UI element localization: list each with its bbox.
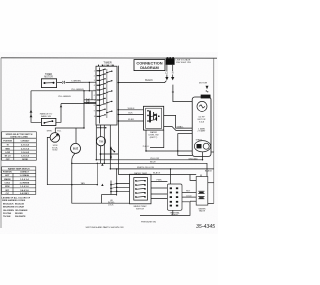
border top bbox=[1, 57, 217, 59]
pump loop wiring bbox=[178, 132, 192, 134]
timer internal buses bbox=[99, 68, 101, 124]
svg-text:8: 8 bbox=[94, 105, 95, 107]
motor box bbox=[192, 97, 211, 156]
svg-text:10: 10 bbox=[94, 116, 96, 118]
svg-text:RD-RED: RD-RED bbox=[15, 213, 23, 215]
svg-text:1-2 & 5-6: 1-2 & 5-6 bbox=[20, 186, 29, 188]
timer motor box bbox=[41, 79, 56, 88]
wires WT box to pin box bbox=[151, 181, 167, 183]
svg-text:3-4 & 5-6: 3-4 & 5-6 bbox=[20, 189, 29, 192]
svg-text:P-BLU: P-BLU bbox=[143, 146, 149, 148]
wire N down to motor bbox=[173, 85, 192, 102]
svg-text:2-3 & 4-5: 2-3 & 4-5 bbox=[21, 144, 30, 147]
wire below pin box bbox=[140, 202, 190, 216]
svg-text:6: 6 bbox=[94, 95, 95, 97]
svg-text:BK-BLACK: BK-BLACK bbox=[3, 202, 14, 205]
svg-text:LOW: LOW bbox=[5, 152, 10, 154]
terminal block TB1 bbox=[166, 57, 175, 65]
svg-text:BLACK: BLACK bbox=[153, 172, 161, 175]
valve right wires bbox=[208, 182, 214, 184]
svg-text:CONTACTS CLOSED: CONTACTS CLOSED bbox=[10, 136, 29, 139]
small timer circle mid bbox=[96, 137, 105, 146]
buzzer circle bbox=[71, 143, 81, 153]
svg-text:1-2 WASH: 1-2 WASH bbox=[20, 174, 30, 177]
table 2: water temp switch bbox=[2, 167, 36, 195]
border left bbox=[0, 58, 2, 228]
svg-text:SWITCHES AND PARTS SHOWN OFF: SWITCHES AND PARTS SHOWN OFF bbox=[86, 226, 125, 229]
svg-text:BLACK: BLACK bbox=[205, 170, 213, 173]
svg-text:1-2 & 4-5: 1-2 & 4-5 bbox=[21, 151, 30, 154]
svg-text:POSITION: POSITION bbox=[3, 141, 12, 143]
wire left drop to unbalance switch bbox=[31, 91, 41, 123]
svg-text:CONTACT: CONTACT bbox=[21, 140, 31, 143]
svg-text:SMALL: SMALL bbox=[177, 126, 185, 129]
bottom-left interlock cluster bbox=[110, 181, 112, 195]
timer pin box bbox=[167, 184, 182, 210]
svg-text:W-BR: W-BR bbox=[128, 119, 134, 121]
svg-text:SPEED SELECTOR SWITCH: SPEED SELECTOR SWITCH bbox=[6, 134, 33, 136]
wire YELLOW bbox=[96, 159, 202, 161]
svg-text:WIRE HARNESS CODES: WIRE HARNESS CODES bbox=[2, 199, 26, 202]
water temp switch box bbox=[130, 174, 152, 204]
unbalance switch box bbox=[41, 118, 56, 125]
svg-text:NONE: NONE bbox=[22, 159, 28, 161]
thermal protector circle bbox=[197, 101, 207, 111]
wire buzzer top bbox=[75, 128, 77, 143]
svg-text:TAN: TAN bbox=[81, 182, 86, 185]
svg-text:DIAGRAM: DIAGRAM bbox=[140, 65, 159, 70]
wire unbalance to right bbox=[56, 104, 61, 123]
svg-text:9: 9 bbox=[94, 111, 95, 113]
svg-text:BU-BLUE: BU-BLUE bbox=[15, 203, 25, 205]
svg-text:WATER TEMP: WATER TEMP bbox=[134, 172, 148, 175]
table 1: speed selector switch bbox=[2, 132, 37, 160]
svg-text:WATER TEMP SWITCH: WATER TEMP SWITCH bbox=[8, 168, 30, 171]
svg-text:N: N bbox=[172, 72, 174, 75]
svg-text:TN-TAN: TN-TAN bbox=[3, 215, 11, 218]
wire WHITE-YELLOW bbox=[110, 168, 214, 170]
svg-text:BLUE: BLUE bbox=[150, 162, 156, 164]
title box bbox=[134, 60, 165, 71]
wires pin box to valve bbox=[182, 192, 196, 194]
svg-text:VALVE: VALVE bbox=[199, 210, 206, 213]
svg-text:WH-WHITE: WH-WHITE bbox=[15, 216, 26, 218]
border right bbox=[213, 58, 215, 203]
wire buzzer bottom curve bbox=[72, 153, 130, 203]
valve extra left wires bbox=[190, 175, 196, 181]
wire into pin box top bbox=[170, 169, 172, 184]
svg-text:TIMER: TIMER bbox=[103, 60, 111, 64]
svg-text:POSITION: POSITION bbox=[3, 172, 12, 174]
svg-text:W/W: W/W bbox=[5, 186, 9, 188]
svg-text:1-2 & 3-4: 1-2 & 3-4 bbox=[20, 178, 29, 181]
svg-text:MOTOR: MOTOR bbox=[44, 76, 53, 78]
timer terminals top bbox=[99, 65, 114, 67]
svg-text:6.0 A: 6.0 A bbox=[199, 120, 204, 123]
svg-text:W-BLK: W-BLK bbox=[128, 108, 135, 110]
svg-text:SPIN: SPIN bbox=[47, 131, 52, 133]
svg-text:YEL-GREEN: YEL-GREEN bbox=[58, 96, 71, 98]
lead L1 bbox=[166, 65, 168, 71]
svg-text:GN-GREEN: GN-GREEN bbox=[3, 210, 14, 212]
svg-text:NOID: NOID bbox=[53, 150, 59, 152]
svg-text:Y-GREEN: Y-GREEN bbox=[71, 80, 81, 82]
spin solenoid circle bbox=[50, 133, 60, 143]
buses left of timer bbox=[88, 82, 90, 90]
svg-text:CONTACT: CONTACT bbox=[20, 171, 30, 174]
svg-text:YEL-GREEN: YEL-GREEN bbox=[71, 89, 84, 91]
svg-text:COLD: COLD bbox=[186, 195, 192, 197]
wire color legend bbox=[2, 196, 31, 218]
svg-text:1-2 & 5-6: 1-2 & 5-6 bbox=[21, 156, 30, 158]
timer contacts bbox=[100, 69, 112, 116]
wire YEL-GRN bbox=[31, 90, 96, 92]
svg-text:120V 60HZ 1PH: 120V 60HZ 1PH bbox=[176, 62, 192, 64]
svg-text:BR-BROWN: BR-BROWN bbox=[3, 207, 15, 209]
arrow N bbox=[172, 75, 174, 78]
svg-text:4: 4 bbox=[94, 85, 95, 87]
wire Y-GRN timer motor to timer bbox=[57, 82, 62, 84]
wire BLACK timer to L1 bbox=[118, 81, 166, 83]
wire to WT box top bbox=[118, 174, 196, 176]
svg-text:PRESSURE SW.: PRESSURE SW. bbox=[141, 222, 157, 224]
bus x84 bbox=[83, 91, 85, 128]
svg-text:YELLOW: YELLOW bbox=[150, 158, 160, 160]
wire BLUE bbox=[72, 163, 207, 176]
wire spin sol left down TAN bbox=[47, 137, 97, 184]
svg-text:PINK: PINK bbox=[157, 180, 163, 182]
svg-text:2: 2 bbox=[94, 75, 95, 77]
svg-text:2 START: 2 START bbox=[197, 130, 206, 133]
svg-text:3-4 ONLY: 3-4 ONLY bbox=[20, 192, 29, 195]
svg-text:(EMPTY): (EMPTY) bbox=[150, 137, 158, 139]
svg-text:TIM: TIM bbox=[99, 140, 103, 143]
water level switch box bbox=[144, 106, 164, 130]
timer box bbox=[96, 66, 117, 125]
svg-text:PK-PINK: PK-PINK bbox=[3, 213, 12, 215]
wires timer to water level switch bbox=[118, 109, 143, 111]
svg-text:1: 1 bbox=[94, 71, 95, 73]
svg-text:OR-ORANGE: OR-ORANGE bbox=[15, 209, 28, 212]
svg-text:WARM: WARM bbox=[4, 178, 11, 181]
svg-text:WHITE-YELLOW: WHITE-YELLOW bbox=[137, 167, 155, 169]
motor to valve right side bbox=[211, 151, 214, 153]
svg-text:COLD: COLD bbox=[4, 183, 10, 185]
vertical buses below timer bbox=[95, 125, 97, 160]
svg-text:W/C: W/C bbox=[5, 190, 9, 192]
svg-text:GY-GRAY: GY-GRAY bbox=[15, 206, 25, 209]
svg-text:LOCK: LOCK bbox=[108, 204, 114, 206]
svg-text:35-4345: 35-4345 bbox=[196, 224, 215, 230]
arrow L1 bbox=[166, 75, 168, 78]
motor assembly top label bbox=[201, 95, 211, 99]
svg-text:C/C: C/C bbox=[6, 193, 10, 195]
lid switch contact bbox=[110, 147, 112, 159]
svg-text:3-4 RINSE: 3-4 RINSE bbox=[20, 182, 30, 185]
timer pin number specks bbox=[94, 71, 96, 119]
svg-text:GROUND: GROUND bbox=[188, 159, 198, 161]
svg-text:BLACK: BLACK bbox=[145, 79, 153, 82]
water valve box bbox=[196, 177, 208, 206]
svg-text:SWITCH: SWITCH bbox=[136, 208, 144, 210]
svg-text:MOTOR: MOTOR bbox=[199, 83, 208, 85]
svg-text:EX LO: EX LO bbox=[5, 156, 11, 158]
wire spin sol top to bus bbox=[55, 128, 84, 133]
svg-text:2-3 & 5-6: 2-3 & 5-6 bbox=[21, 148, 30, 150]
svg-text:MED: MED bbox=[5, 148, 10, 150]
valve top wire bbox=[200, 175, 202, 177]
wire WL box to motor bbox=[164, 115, 193, 128]
svg-text:BUZ: BUZ bbox=[73, 147, 79, 151]
svg-text:BASE SW: BASE SW bbox=[41, 115, 52, 118]
lead N bbox=[172, 65, 174, 71]
svg-text:BLK: BLK bbox=[128, 113, 133, 115]
